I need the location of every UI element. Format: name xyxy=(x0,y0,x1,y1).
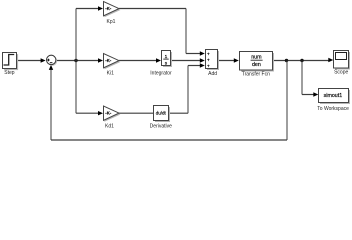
svg-text:den: den xyxy=(252,62,261,68)
wire Kp1 out to Add top xyxy=(119,8,186,10)
node branch junction xyxy=(74,59,77,62)
wire Add to Transfer Fcn xyxy=(218,60,235,62)
scope block xyxy=(334,51,351,76)
svg-text:Derivative: Derivative xyxy=(150,123,172,129)
gain Kd1 xyxy=(104,106,121,130)
svg-text:Ki1: Ki1 xyxy=(107,71,114,77)
svg-text:Kp1: Kp1 xyxy=(107,19,116,25)
svg-text:+: + xyxy=(207,51,210,56)
step source block xyxy=(3,53,19,77)
wire Kd1 out to Add bottom xyxy=(119,112,188,114)
svg-text:du/dt: du/dt xyxy=(156,110,167,115)
node feedback junction xyxy=(285,59,288,62)
svg-text:To Workspace: To Workspace xyxy=(317,106,349,112)
svg-text:-K-: -K- xyxy=(105,58,112,63)
svg-text:Kd1: Kd1 xyxy=(105,124,114,130)
wire feedback down and back to sum xyxy=(286,61,288,141)
wire integrator to Add middle xyxy=(171,60,201,62)
svg-text:-K-: -K- xyxy=(105,111,112,116)
integrator block xyxy=(150,51,172,77)
wire step to sum xyxy=(16,60,42,62)
wire branch to To Workspace xyxy=(301,61,303,95)
svg-text:Add: Add xyxy=(208,71,217,77)
to workspace block xyxy=(317,89,350,112)
add block xyxy=(206,50,220,78)
derivative block xyxy=(150,106,172,130)
gain Kp1 xyxy=(104,2,121,25)
wire branch to Kp1 xyxy=(76,8,99,10)
wire branch to Kd1 xyxy=(76,112,99,114)
wire branch vertical xyxy=(75,9,77,114)
svg-text:simout1: simout1 xyxy=(324,93,343,99)
svg-text:Scope: Scope xyxy=(334,70,348,76)
svg-text:+: + xyxy=(207,63,210,68)
svg-text:Integrator: Integrator xyxy=(150,71,172,77)
sum block xyxy=(47,55,58,65)
svg-text:Step: Step xyxy=(4,70,15,76)
wire sum to branch to Ki1 xyxy=(56,60,99,62)
wire Ki1 to integrator xyxy=(119,60,157,62)
svg-text:Transfer Fcn: Transfer Fcn xyxy=(242,71,270,77)
transfer fcn block xyxy=(240,52,275,78)
wire Transfer Fcn to Scope xyxy=(273,60,330,62)
svg-text:num: num xyxy=(251,55,262,61)
svg-text:-K-: -K- xyxy=(105,6,112,11)
svg-text:+: + xyxy=(207,57,210,62)
gain Ki1 xyxy=(104,54,121,77)
node to-workspace junction xyxy=(300,59,303,62)
